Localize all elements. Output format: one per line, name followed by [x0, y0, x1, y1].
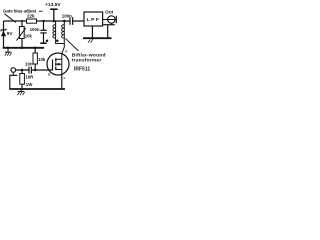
- capacitor 100n (output coupling): [62, 14, 73, 25]
- wire source to ground rail: [61, 74, 63, 89]
- svg-text:10n: 10n: [25, 61, 33, 66]
- ground rail (LPF / output): [83, 25, 112, 43]
- svg-text:IRF511: IRF511: [74, 67, 90, 73]
- label Bifilar-wound transformer: [66, 39, 106, 64]
- node junction on rail (bypass cap): [42, 20, 45, 23]
- svg-text:10k: 10k: [38, 57, 46, 62]
- wire input to gate: [16, 69, 49, 71]
- connector input socket: [9, 68, 17, 89]
- wire LPF to output: [103, 19, 117, 21]
- transformer T1 left winding: [53, 21, 64, 44]
- svg-text:Bifilar-wound: Bifilar-wound: [72, 53, 106, 59]
- wire top rail: [4, 20, 85, 22]
- capacitor 10n (input): [25, 61, 33, 73]
- phasing dot left winding: [46, 39, 49, 42]
- svg-text:1W: 1W: [26, 82, 33, 87]
- svg-text:transformer: transformer: [72, 58, 102, 64]
- node junction on rail (pot top): [21, 20, 23, 22]
- capacitor 100n (supply bypass): [30, 21, 47, 43]
- node junction (gate resistor): [34, 69, 37, 72]
- node junction on rail (+13.5V feed): [52, 20, 55, 23]
- svg-text:+13.5V: +13.5V: [45, 2, 61, 8]
- block LPF: [84, 12, 103, 26]
- resistor 10k (gate): [33, 48, 46, 70]
- node junction (input termination): [21, 69, 24, 72]
- svg-text:s: s: [63, 75, 65, 80]
- supply +13.5V: [45, 2, 61, 21]
- svg-text:22k: 22k: [27, 14, 35, 19]
- ground (lower): [17, 89, 24, 95]
- svg-text:10R: 10R: [25, 74, 34, 79]
- zener diode 9V: [1, 28, 13, 36]
- svg-text:100n: 100n: [30, 27, 40, 32]
- svg-text:Out: Out: [105, 10, 114, 16]
- svg-text:LPF: LPF: [87, 17, 101, 23]
- label Gate bias adjust: [3, 9, 43, 14]
- node junction (10R bottom): [21, 88, 24, 91]
- wire left vertical (zener branch): [3, 21, 5, 48]
- resistor 22k: [27, 14, 37, 24]
- wire upper ground rail: [3, 47, 44, 49]
- transformer T1 right winding: [62, 21, 65, 54]
- node junction (pot bottom): [21, 47, 24, 50]
- wire bottom ground rail: [9, 88, 65, 90]
- potentiometer 10k: [17, 21, 33, 48]
- node junction (ground stub): [7, 47, 10, 50]
- svg-text:10k: 10k: [25, 33, 33, 38]
- ground (upper): [5, 48, 12, 56]
- transistor Q1 IRF511: [47, 53, 69, 75]
- node junction on rail (right winding top): [63, 20, 66, 23]
- phasing dot right winding: [56, 39, 59, 42]
- resistor 10R 1W: [20, 70, 34, 89]
- leader line to potentiometer: [5, 14, 16, 23]
- node junction (10k top): [34, 47, 37, 50]
- svg-text:9V: 9V: [7, 31, 14, 36]
- connector output socket: [103, 16, 116, 25]
